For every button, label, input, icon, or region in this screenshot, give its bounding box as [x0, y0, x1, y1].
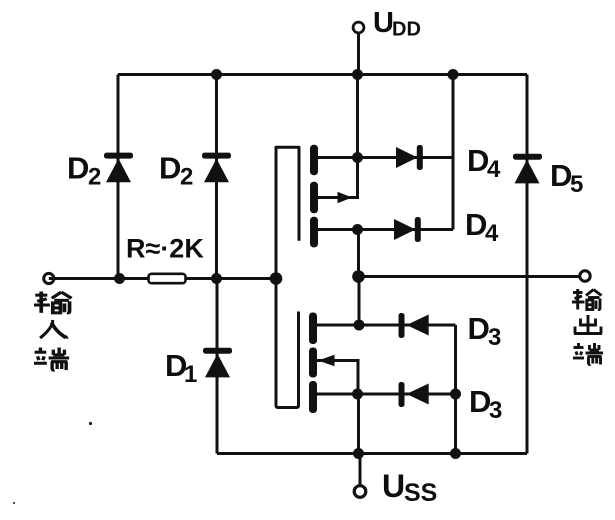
label output terminal 端 (duan): [573, 343, 603, 365]
wire Q1 source lead: [317, 156, 358, 159]
transistor Q1 PMOS channel bars: [310, 145, 318, 248]
svg-text:4: 4: [485, 220, 499, 247]
diode D4 lower (pointing right): [394, 217, 421, 242]
output terminal circle: [580, 271, 590, 281]
node Q2 source junction: [352, 389, 363, 400]
node D3 column at source row: [450, 389, 461, 400]
speck artifact: [89, 422, 92, 425]
speck artifact: [13, 502, 15, 504]
wire D4 column (UDD rail down to lower D4): [452, 75, 455, 230]
USS terminal circle: [354, 486, 366, 498]
arrow Q1 substrate (pointing right, P-channel): [338, 192, 353, 204]
diode D3 upper (pointing left): [399, 313, 429, 338]
node junction top rail at UDD column: [352, 69, 363, 80]
node junction input row at left column: [114, 273, 125, 284]
wire D4 row upper (source to D4 column): [358, 156, 454, 159]
node junction top rail at D4 column: [448, 69, 459, 80]
node USS rail at source column: [353, 448, 364, 459]
svg-text:SS: SS: [404, 479, 437, 507]
label input terminal 入 (ru): [40, 320, 68, 338]
svg-text:1: 1: [184, 361, 197, 388]
node USS rail at D3 column: [450, 448, 461, 459]
svg-text:3: 3: [488, 324, 501, 351]
arrow Q2 substrate (pointing left, N-channel): [318, 355, 335, 367]
svg-text:U: U: [382, 468, 405, 504]
diode D4 upper (pointing right): [396, 145, 423, 170]
svg-text:5: 5: [570, 171, 583, 198]
wire UDD column down to PMOS source: [356, 75, 359, 158]
label output terminal 出 (chu): [574, 315, 602, 334]
node gate junction: [270, 272, 283, 285]
resistor R≈2K body: [149, 274, 186, 283]
wire second column lower (input row to USS rail): [216, 279, 219, 454]
svg-text:3: 3: [489, 397, 502, 424]
wire left column (input to UDD rail): [117, 75, 120, 279]
node Q2 drain junction: [354, 320, 365, 331]
label input terminal 输 (shu): [34, 292, 71, 313]
wire Q1 drain down to output node: [357, 230, 360, 277]
wire second column upper (input row to UDD rail): [215, 75, 218, 279]
diode D3 lower (pointing left): [399, 382, 429, 407]
node Q1 drain junction: [352, 224, 363, 235]
svg-text:U: U: [373, 7, 394, 39]
node junction top rail at second column: [211, 69, 222, 80]
wire D4 row lower (drain to D4 column): [358, 228, 454, 231]
label output terminal 输 (shu): [572, 289, 602, 310]
diode D2 right (pointing up): [202, 153, 231, 183]
wire D3 row upper (drain to D3 column): [359, 324, 456, 327]
diode D1 (pointing up): [203, 348, 232, 378]
wire top UDD rail: [118, 73, 527, 76]
wire bottom USS rail: [217, 452, 527, 455]
wire input row right segment (to gate node): [185, 277, 277, 280]
transistor Q2 NMOS channel bars: [309, 313, 317, 414]
wire UDD terminal stem: [357, 33, 360, 75]
wire Q1 drain lead: [317, 228, 358, 231]
svg-text:DD: DD: [392, 19, 421, 41]
svg-text:2: 2: [180, 164, 193, 191]
svg-text:D: D: [468, 311, 490, 346]
wire input row left segment: [49, 277, 149, 280]
wire Q2 drain lead: [316, 324, 359, 327]
svg-text:D: D: [67, 151, 89, 186]
node output junction: [352, 270, 365, 283]
diode D2 left (pointing up): [104, 153, 133, 183]
UDD terminal circle: [353, 22, 364, 33]
wire Q1 substrate lead with bend up to source: [317, 158, 358, 198]
wire Q2 drain up to output node: [358, 277, 361, 326]
wire D3 row lower (source to D3 column): [358, 393, 456, 396]
wire NMOS gate lead (down and over): [276, 279, 299, 408]
diode D5 (pointing up): [513, 154, 542, 184]
svg-text:4: 4: [487, 156, 501, 183]
wire output row to output terminal: [359, 275, 580, 278]
input terminal circle: [44, 273, 54, 283]
wire D3 column (down to USS rail): [454, 325, 457, 454]
svg-text:R≈·2K: R≈·2K: [126, 234, 204, 264]
wire right column (UDD rail to USS rail via D5): [526, 75, 529, 454]
wire Q2 substrate lead with bend down to source: [316, 361, 358, 395]
svg-text:D: D: [159, 151, 181, 186]
wire Q2 source down to USS rail: [357, 394, 360, 454]
wire USS terminal stem: [359, 454, 362, 487]
label input terminal 端 (duan): [34, 348, 69, 371]
node junction input row at second column: [211, 273, 222, 284]
svg-text:2: 2: [88, 164, 101, 191]
wire Q2 source lead: [316, 393, 358, 396]
wire PMOS gate lead (up and over): [276, 147, 299, 278]
node Q1 source junction: [352, 152, 363, 163]
